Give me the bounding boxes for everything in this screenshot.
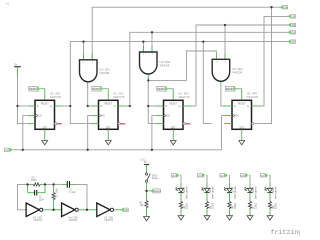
svg-text:22pF: 22pF [39,198,45,201]
svg-text:10kΩ: 10kΩ [31,179,37,182]
svg-text:74HC08: 74HC08 [232,71,242,75]
svg-text:74HC08: 74HC08 [99,71,109,75]
svg-text:220Ω: 220Ω [254,203,257,209]
svg-text:Reset: Reset [152,177,159,180]
svg-text:R1 10kΩ: R1 10kΩ [56,188,59,198]
svg-text:5V: 5V [14,62,18,66]
svg-text:U1 / 4F4: U1 / 4F4 [247,92,258,96]
svg-text:220Ω: 220Ω [211,203,214,209]
svg-text:5mm green: 5mm green [255,186,258,199]
svg-text:CK: CK [5,150,9,152]
svg-text:5mm green: 5mm green [275,186,278,199]
svg-text:U1 / 1F1: U1 / 1F1 [113,92,124,96]
svg-text:5mm green: 5mm green [234,186,237,199]
svg-text:U1 / 2F2: U1 / 2F2 [50,92,61,96]
svg-text:U2 / 3D4: U2 / 3D4 [232,67,243,71]
svg-text:CLK1: CLK1 [140,159,147,162]
svg-text:220Ω: 220Ω [274,203,277,209]
svg-text:RESET: RESET [154,191,162,193]
svg-text:74HC08: 74HC08 [160,64,170,68]
svg-text:74HC04: 74HC04 [69,219,78,222]
svg-text:U2 / 1D4: U2 / 1D4 [99,68,110,72]
svg-text:74HC175: 74HC175 [247,95,259,99]
svg-text:U1 / 3F3: U1 / 3F3 [178,92,189,96]
svg-text:fritzing: fritzing [271,229,301,236]
svg-text:CK: CK [125,209,129,212]
svg-text:74HC04: 74HC04 [33,219,42,222]
svg-text:220Ω: 220Ω [185,203,188,209]
svg-text:5mm green: 5mm green [186,186,189,199]
svg-text:74HC175: 74HC175 [113,95,125,99]
svg-text:220Ω: 220Ω [234,203,237,209]
svg-text:U2 / 2D4: U2 / 2D4 [160,60,171,64]
svg-text:74HC04: 74HC04 [104,219,113,222]
svg-text:5mm green: 5mm green [212,186,215,199]
svg-text:0.1µF: 0.1µF [70,191,77,194]
svg-text:74HC175: 74HC175 [178,95,190,99]
svg-text:74HC175: 74HC175 [50,95,62,99]
